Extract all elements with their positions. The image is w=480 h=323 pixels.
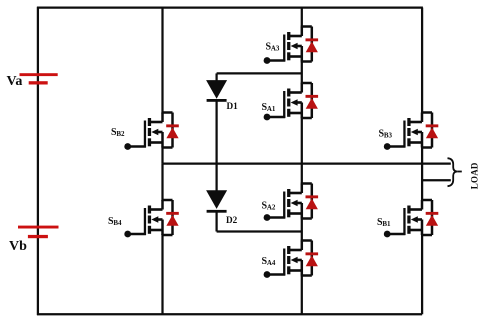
wire mid rail to load <box>163 162 451 164</box>
diode D1 <box>206 80 227 102</box>
wire SA2 drain from mid rail <box>301 164 303 185</box>
wire SB1 source to bottom rail <box>421 234 423 314</box>
svg-text:SB2: SB2 <box>111 127 125 138</box>
svg-text:SA3: SA3 <box>266 42 280 53</box>
wire D1 anode line to node between SA3,SA1 <box>217 72 302 74</box>
svg-text:SB1: SB1 <box>377 217 391 228</box>
svg-text:SB4: SB4 <box>108 216 122 227</box>
wire SB4 drain from mid rail <box>161 164 163 201</box>
svg-text:SB3: SB3 <box>379 129 393 140</box>
svg-text:Vb: Vb <box>9 239 27 254</box>
wire SB4 source to bottom rail <box>161 234 163 314</box>
wire D2 to node between SA2,SA4 <box>217 230 302 232</box>
wire SA3 source to SA1 drain <box>301 61 303 85</box>
svg-text:SA2: SA2 <box>262 201 276 212</box>
wire top rail <box>37 6 423 8</box>
transistor SB2 (MOSFET with body diode) <box>124 113 179 150</box>
wire SB3 drain feed (right rail) <box>421 8 423 114</box>
wire left rail <box>37 7 39 315</box>
transistor SB1 (MOSFET with body diode) <box>384 200 439 237</box>
wire SA4 drain <box>301 232 303 242</box>
wire SB2 drain feed <box>161 8 163 114</box>
svg-text:LOAD: LOAD <box>469 162 479 189</box>
transistor SA2 (MOSFET with body diode) <box>264 184 319 221</box>
svg-text:D1: D1 <box>227 101 239 111</box>
diode D2 <box>206 190 227 213</box>
battery Vb <box>18 226 59 239</box>
wire load lower terminal <box>422 179 451 181</box>
wire SA3 drain feed <box>301 8 303 28</box>
transistor SA3 (MOSFET with body diode) <box>264 27 319 64</box>
svg-text:SA1: SA1 <box>262 102 276 113</box>
wire SB2 source to mid rail <box>161 147 163 164</box>
wire SB3 source to SB1 drain (crosses mid rail) <box>421 147 423 202</box>
transistor SB4 (MOSFET with body diode) <box>124 200 179 237</box>
svg-text:D2: D2 <box>226 215 238 225</box>
wire bottom rail <box>37 313 422 315</box>
battery Va <box>20 73 58 84</box>
transistor SA1 (MOSFET with body diode) <box>264 83 319 120</box>
transistor SA4 (MOSFET with body diode) <box>264 241 319 278</box>
wire D1 anode drop <box>215 73 217 81</box>
transistor SB3 (MOSFET with body diode) <box>384 113 439 150</box>
wire SA2 source to D2 node <box>301 218 303 232</box>
wire D2 cathode drop <box>215 211 217 232</box>
wire SA1 source to mid rail <box>301 117 303 164</box>
wire D2 anode from mid rail <box>215 164 217 192</box>
wire D1 cathode to mid rail <box>215 100 217 164</box>
wire SA4 source to bottom rail <box>301 275 303 315</box>
svg-text:SA4: SA4 <box>262 256 276 267</box>
svg-text:Va: Va <box>7 74 23 89</box>
load brace <box>448 158 462 186</box>
